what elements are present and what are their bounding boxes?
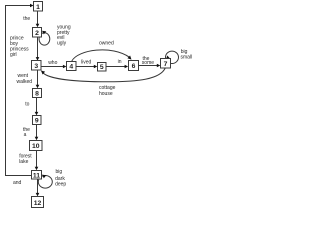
svg-text:2: 2: [35, 30, 39, 37]
svg-text:lake: lake: [19, 159, 28, 165]
svg-text:in: in: [118, 59, 122, 65]
svg-text:11: 11: [33, 172, 40, 179]
svg-text:12: 12: [34, 200, 42, 207]
svg-text:3: 3: [34, 63, 38, 70]
label young pretty evil ugly: [57, 24, 71, 46]
wire 4 to 5: [76, 65, 97, 69]
node 2: [33, 28, 42, 38]
node 11: [32, 171, 42, 180]
svg-text:owned: owned: [99, 41, 114, 47]
wire owned arc 4 to 6: [72, 50, 132, 61]
svg-text:girl: girl: [10, 52, 17, 58]
node 3: [32, 61, 42, 71]
label big small (node 7): [181, 49, 193, 60]
wire 6 to 7: [139, 64, 161, 68]
label the some: [142, 56, 154, 66]
node 5: [98, 63, 107, 72]
svg-text:8: 8: [35, 91, 39, 98]
wire 9 to 10: [35, 125, 39, 141]
svg-text:small: small: [181, 54, 193, 60]
loop at node 7: [166, 51, 179, 63]
wire 3 to 8: [36, 70, 40, 88]
label cottage house: [99, 85, 116, 97]
svg-text:7: 7: [164, 61, 168, 68]
label prince boy princess girl: [10, 35, 29, 58]
svg-text:deep: deep: [55, 182, 66, 188]
node 9: [33, 116, 42, 125]
svg-text:big: big: [56, 169, 63, 175]
loop at node 2: [39, 31, 50, 45]
wire 1 to 2: [36, 11, 40, 27]
wire 10 to 11: [35, 151, 39, 171]
node 8: [33, 89, 42, 98]
loop at node 11: [38, 175, 52, 189]
label went walked: [17, 73, 33, 85]
svg-text:9: 9: [35, 118, 39, 125]
wire 3 to 4: [41, 65, 66, 69]
wire 11 to 12: [36, 179, 40, 196]
label forest lake: [19, 153, 32, 165]
node 7: [161, 59, 171, 69]
svg-text:the: the: [23, 16, 30, 22]
svg-text:1: 1: [36, 4, 40, 11]
svg-text:4: 4: [69, 64, 73, 71]
node 6: [129, 61, 139, 71]
svg-text:and: and: [13, 180, 22, 186]
svg-text:5: 5: [100, 64, 104, 71]
wire and-loop 11 to 1: [6, 4, 34, 176]
wire 8 to 9: [35, 98, 39, 116]
svg-text:6: 6: [132, 63, 136, 70]
svg-text:10: 10: [32, 143, 40, 150]
svg-text:house: house: [99, 91, 113, 97]
svg-text:a: a: [24, 132, 27, 138]
node 10: [30, 141, 43, 151]
node 4: [67, 62, 77, 71]
label the a: [23, 127, 30, 138]
svg-text:lived: lived: [81, 59, 92, 65]
svg-text:some: some: [142, 60, 154, 66]
wire 2 to 3: [36, 37, 40, 61]
node 12: [32, 197, 44, 208]
wire 5 to 6: [106, 65, 128, 69]
svg-text:who: who: [48, 60, 57, 66]
node 1: [34, 2, 43, 12]
svg-text:to: to: [25, 102, 29, 108]
svg-text:ugly: ugly: [57, 40, 67, 46]
svg-text:walked: walked: [17, 79, 33, 85]
wire cottage-house arc 7 to 3: [41, 68, 165, 82]
label big dark deep: [55, 169, 66, 188]
